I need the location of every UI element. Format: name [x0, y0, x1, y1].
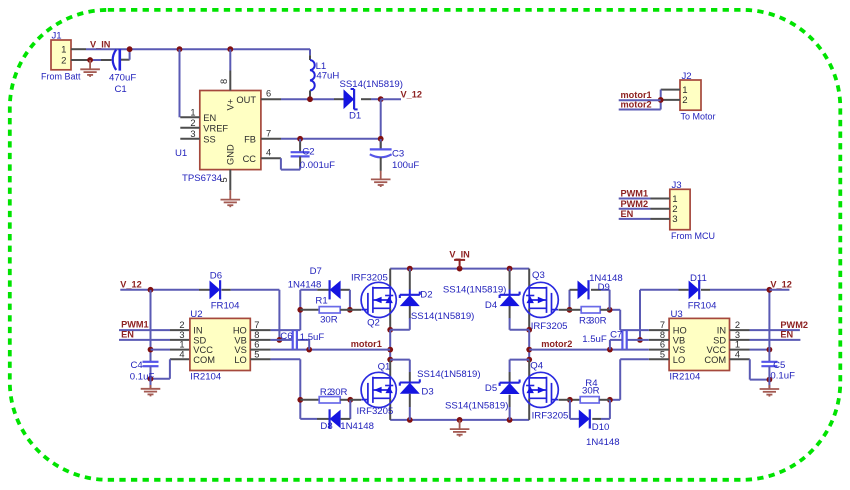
svg-text:7: 7: [660, 320, 665, 330]
svg-text:7: 7: [266, 128, 271, 138]
svg-text:U2: U2: [190, 309, 202, 320]
svg-text:IRF3205: IRF3205: [357, 406, 394, 417]
svg-text:FB: FB: [244, 134, 256, 144]
svg-text:V_IN: V_IN: [449, 250, 470, 260]
svg-text:motor1: motor1: [351, 339, 382, 349]
svg-text:From MCU: From MCU: [671, 231, 715, 241]
svg-text:IN: IN: [717, 326, 726, 336]
svg-text:8: 8: [219, 79, 229, 84]
svg-text:2: 2: [682, 95, 687, 106]
svg-text:8: 8: [254, 330, 259, 340]
svg-text:1: 1: [735, 340, 740, 350]
svg-text:V_IN: V_IN: [90, 39, 111, 49]
svg-text:V_12: V_12: [120, 280, 141, 290]
svg-text:SD: SD: [713, 336, 726, 346]
svg-text:SS14(1N5819): SS14(1N5819): [443, 285, 506, 296]
svg-text:6: 6: [266, 89, 271, 99]
svg-text:30R: 30R: [582, 386, 600, 397]
svg-text:PWM2: PWM2: [780, 320, 808, 330]
svg-text:3: 3: [672, 214, 677, 225]
svg-text:SS14(1N5819): SS14(1N5819): [411, 311, 474, 322]
svg-text:D8: D8: [320, 421, 332, 432]
svg-text:FR104: FR104: [211, 300, 240, 311]
svg-text:30R: 30R: [330, 387, 348, 398]
svg-text:J3: J3: [672, 180, 682, 191]
svg-text:GND: GND: [226, 144, 236, 165]
svg-text:OUT: OUT: [236, 95, 256, 105]
svg-text:motor2: motor2: [541, 339, 572, 349]
svg-text:47uH: 47uH: [316, 70, 339, 81]
svg-text:SS14(1N5819): SS14(1N5819): [445, 401, 508, 412]
svg-text:30R: 30R: [320, 314, 338, 325]
svg-text:0.001uF: 0.001uF: [300, 160, 335, 171]
svg-text:8: 8: [660, 330, 665, 340]
svg-text:D4: D4: [485, 300, 498, 311]
svg-text:EN: EN: [780, 330, 793, 340]
svg-text:0.1uF: 0.1uF: [130, 372, 155, 383]
svg-text:2: 2: [179, 320, 184, 330]
svg-text:V_12: V_12: [401, 90, 422, 100]
svg-text:HO: HO: [673, 326, 687, 336]
svg-text:U3: U3: [671, 309, 683, 320]
svg-text:VREF: VREF: [203, 123, 228, 133]
svg-text:C1: C1: [115, 84, 127, 95]
svg-text:30R: 30R: [589, 315, 607, 326]
svg-text:2: 2: [735, 320, 740, 330]
svg-text:IRF3205: IRF3205: [532, 410, 569, 421]
svg-text:PWM1: PWM1: [621, 189, 649, 199]
svg-text:IN: IN: [193, 326, 202, 336]
svg-text:2: 2: [190, 118, 195, 128]
svg-text:CC: CC: [243, 154, 257, 164]
svg-text:U1: U1: [175, 148, 187, 159]
svg-text:7: 7: [254, 320, 259, 330]
svg-text:VB: VB: [673, 336, 685, 346]
svg-text:1: 1: [190, 107, 195, 117]
svg-text:HO: HO: [233, 326, 247, 336]
svg-text:1: 1: [179, 340, 184, 350]
svg-text:1N4148: 1N4148: [288, 280, 322, 291]
svg-text:IRF3205: IRF3205: [351, 272, 388, 283]
svg-text:C3: C3: [392, 148, 404, 159]
svg-text:6: 6: [254, 340, 259, 350]
svg-text:J2: J2: [682, 71, 692, 82]
svg-text:100uF: 100uF: [392, 160, 419, 171]
svg-text:2: 2: [61, 55, 66, 66]
svg-text:4: 4: [266, 148, 271, 158]
svg-text:VCC: VCC: [706, 345, 726, 355]
svg-text:D1: D1: [349, 111, 361, 122]
svg-text:4: 4: [735, 349, 740, 359]
svg-text:D7: D7: [310, 266, 322, 277]
svg-text:From Batt: From Batt: [41, 71, 81, 81]
svg-text:5: 5: [219, 177, 229, 182]
svg-text:3: 3: [735, 330, 740, 340]
svg-text:PWM1: PWM1: [121, 320, 149, 330]
svg-text:VCC: VCC: [193, 345, 213, 355]
svg-text:Q4: Q4: [530, 360, 543, 371]
svg-text:D5: D5: [485, 383, 497, 394]
svg-text:IR2104: IR2104: [190, 371, 222, 382]
svg-text:C7: C7: [610, 329, 622, 340]
svg-text:C6: C6: [280, 331, 292, 342]
svg-text:1.5uF: 1.5uF: [300, 332, 325, 343]
svg-text:COM: COM: [704, 355, 726, 365]
svg-text:470uF: 470uF: [109, 72, 136, 83]
svg-text:R1: R1: [315, 296, 327, 307]
svg-text:motor2: motor2: [621, 100, 652, 110]
svg-text:IR2104: IR2104: [669, 371, 701, 382]
svg-text:VB: VB: [234, 336, 246, 346]
svg-text:1N4148: 1N4148: [586, 437, 620, 448]
svg-text:1N4148: 1N4148: [340, 421, 374, 432]
svg-text:LO: LO: [234, 355, 246, 365]
svg-text:Q3: Q3: [532, 270, 545, 281]
svg-text:IRF3205: IRF3205: [531, 321, 568, 332]
svg-text:1: 1: [61, 45, 66, 56]
svg-text:4: 4: [179, 349, 184, 359]
svg-text:D10: D10: [592, 422, 610, 433]
svg-text:SS14(1N5819): SS14(1N5819): [340, 79, 403, 90]
svg-text:EN: EN: [121, 329, 134, 339]
svg-text:D3: D3: [421, 386, 433, 397]
svg-text:5: 5: [660, 349, 665, 359]
svg-text:V+: V+: [226, 99, 236, 111]
svg-text:6: 6: [660, 340, 665, 350]
svg-text:VS: VS: [234, 345, 246, 355]
svg-text:0.1uF: 0.1uF: [770, 370, 795, 381]
svg-text:EN: EN: [621, 209, 634, 219]
svg-text:C4: C4: [131, 360, 144, 371]
svg-text:J1: J1: [52, 31, 62, 42]
svg-text:LO: LO: [673, 355, 685, 365]
svg-text:Q2: Q2: [367, 318, 380, 329]
svg-text:D2: D2: [420, 289, 432, 300]
svg-text:SS: SS: [203, 134, 215, 144]
svg-text:5: 5: [254, 349, 259, 359]
svg-text:D9: D9: [598, 282, 610, 293]
svg-text:1.5uF: 1.5uF: [582, 334, 607, 345]
svg-text:To Motor: To Motor: [681, 112, 716, 122]
svg-text:V_12: V_12: [770, 280, 791, 290]
svg-text:SS14(1N5819): SS14(1N5819): [417, 369, 480, 380]
svg-text:VS: VS: [673, 345, 685, 355]
svg-text:PWM2: PWM2: [621, 199, 649, 209]
svg-text:3: 3: [190, 129, 195, 139]
svg-text:SD: SD: [193, 336, 206, 346]
svg-text:Q1: Q1: [378, 362, 391, 373]
svg-text:D11: D11: [690, 273, 707, 284]
svg-text:D6: D6: [210, 271, 222, 282]
svg-text:FR104: FR104: [688, 301, 717, 312]
svg-text:COM: COM: [193, 355, 215, 365]
svg-text:C2: C2: [302, 146, 314, 157]
svg-text:3: 3: [179, 330, 184, 340]
svg-text:TPS6734: TPS6734: [182, 173, 223, 184]
svg-text:EN: EN: [203, 113, 216, 123]
